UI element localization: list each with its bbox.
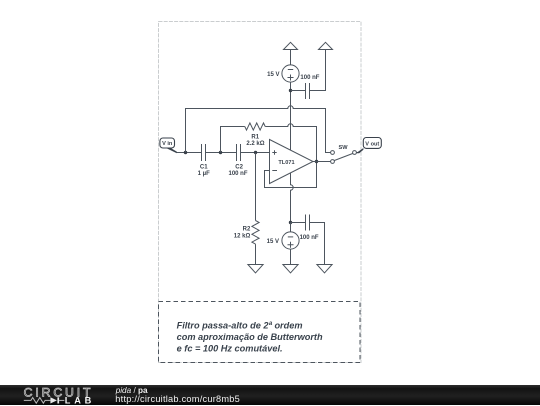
svg-text:C2: C2 (235, 165, 243, 171)
wire negative feedback loop output to - input (265, 162, 317, 188)
node D output junction (315, 160, 318, 163)
svg-text:Filtro passa-alto de 2ª ordem: Filtro passa-alto de 2ª ordem (177, 321, 303, 331)
ground below bottom bypass capacitor (317, 265, 332, 273)
capacitor 100nF top bypass (291, 50, 326, 100)
svg-text:15 V: 15 V (267, 72, 279, 78)
svg-text:C1: C1 (200, 165, 208, 171)
footer bar (0, 385, 540, 406)
svg-text:100 nF: 100 nF (228, 171, 247, 177)
power flag VCC left arrow (284, 42, 298, 49)
svg-text:100 nF: 100 nF (300, 235, 319, 241)
voltage source V1 15V top (267, 50, 299, 91)
node top supply junction (289, 89, 292, 92)
svg-text:2.2 kΩ: 2.2 kΩ (246, 141, 264, 147)
wire input rail (177, 152, 270, 154)
footer title text (116, 386, 148, 395)
switch SW (331, 145, 357, 163)
resistor R1 (245, 123, 265, 147)
svg-text:com aproximação de Butterworth: com aproximação de Butterworth (177, 332, 323, 342)
footer url text (115, 394, 240, 404)
wire output to switch (313, 161, 331, 163)
wire outer feedback from node A to switch with hop over V+ pin (186, 106, 331, 153)
node A input junction (184, 151, 187, 154)
resistor R2 (234, 221, 259, 245)
svg-text:1 µF: 1 µF (198, 171, 210, 177)
svg-text:TL071: TL071 (278, 160, 294, 166)
wire R1 right branch with hop over V+ pin (265, 124, 316, 162)
net flag V in (160, 138, 177, 153)
svg-text:12 kΩ: 12 kΩ (234, 234, 251, 240)
capacitor C2 (228, 144, 247, 177)
svg-text:e fc = 100 Hz comutável.: e fc = 100 Hz comutável. (177, 343, 283, 353)
svg-text:R1: R1 (251, 134, 259, 140)
svg-text:V out: V out (365, 141, 379, 147)
svg-text:15 V: 15 V (267, 239, 279, 245)
ground below V2 (283, 265, 298, 273)
node C C2 to +in and R2 junction (254, 151, 257, 154)
wire switch to V out (356, 152, 358, 154)
annotation box (159, 302, 361, 363)
wire R2 top (255, 153, 257, 221)
svg-text:SW: SW (338, 145, 348, 151)
wire R2 bottom (255, 244, 257, 264)
CircuitLab logo (0, 385, 110, 406)
power flag VCC right arrow (319, 42, 333, 49)
svg-text:100 nF: 100 nF (300, 75, 319, 81)
node B C1-C2 junction (219, 151, 222, 154)
op-amp U1 TL071 (270, 140, 314, 184)
net flag V out (356, 138, 381, 154)
ground below R2 (248, 265, 263, 273)
wire V+ supply pin of op-amp (290, 91, 292, 151)
annotation text (177, 321, 323, 354)
wire R1 left branch (221, 127, 245, 153)
node bottom supply junction (289, 221, 292, 224)
capacitor C1 (198, 144, 210, 177)
svg-text:V in: V in (162, 141, 173, 147)
wire V- supply pin of op-amp with hop over feedback wire (291, 173, 294, 223)
svg-text:R2: R2 (243, 227, 251, 233)
capacitor 100nF bottom bypass (291, 215, 325, 265)
voltage source V2 15V bottom (267, 223, 299, 265)
svg-text:LAB: LAB (65, 395, 95, 405)
